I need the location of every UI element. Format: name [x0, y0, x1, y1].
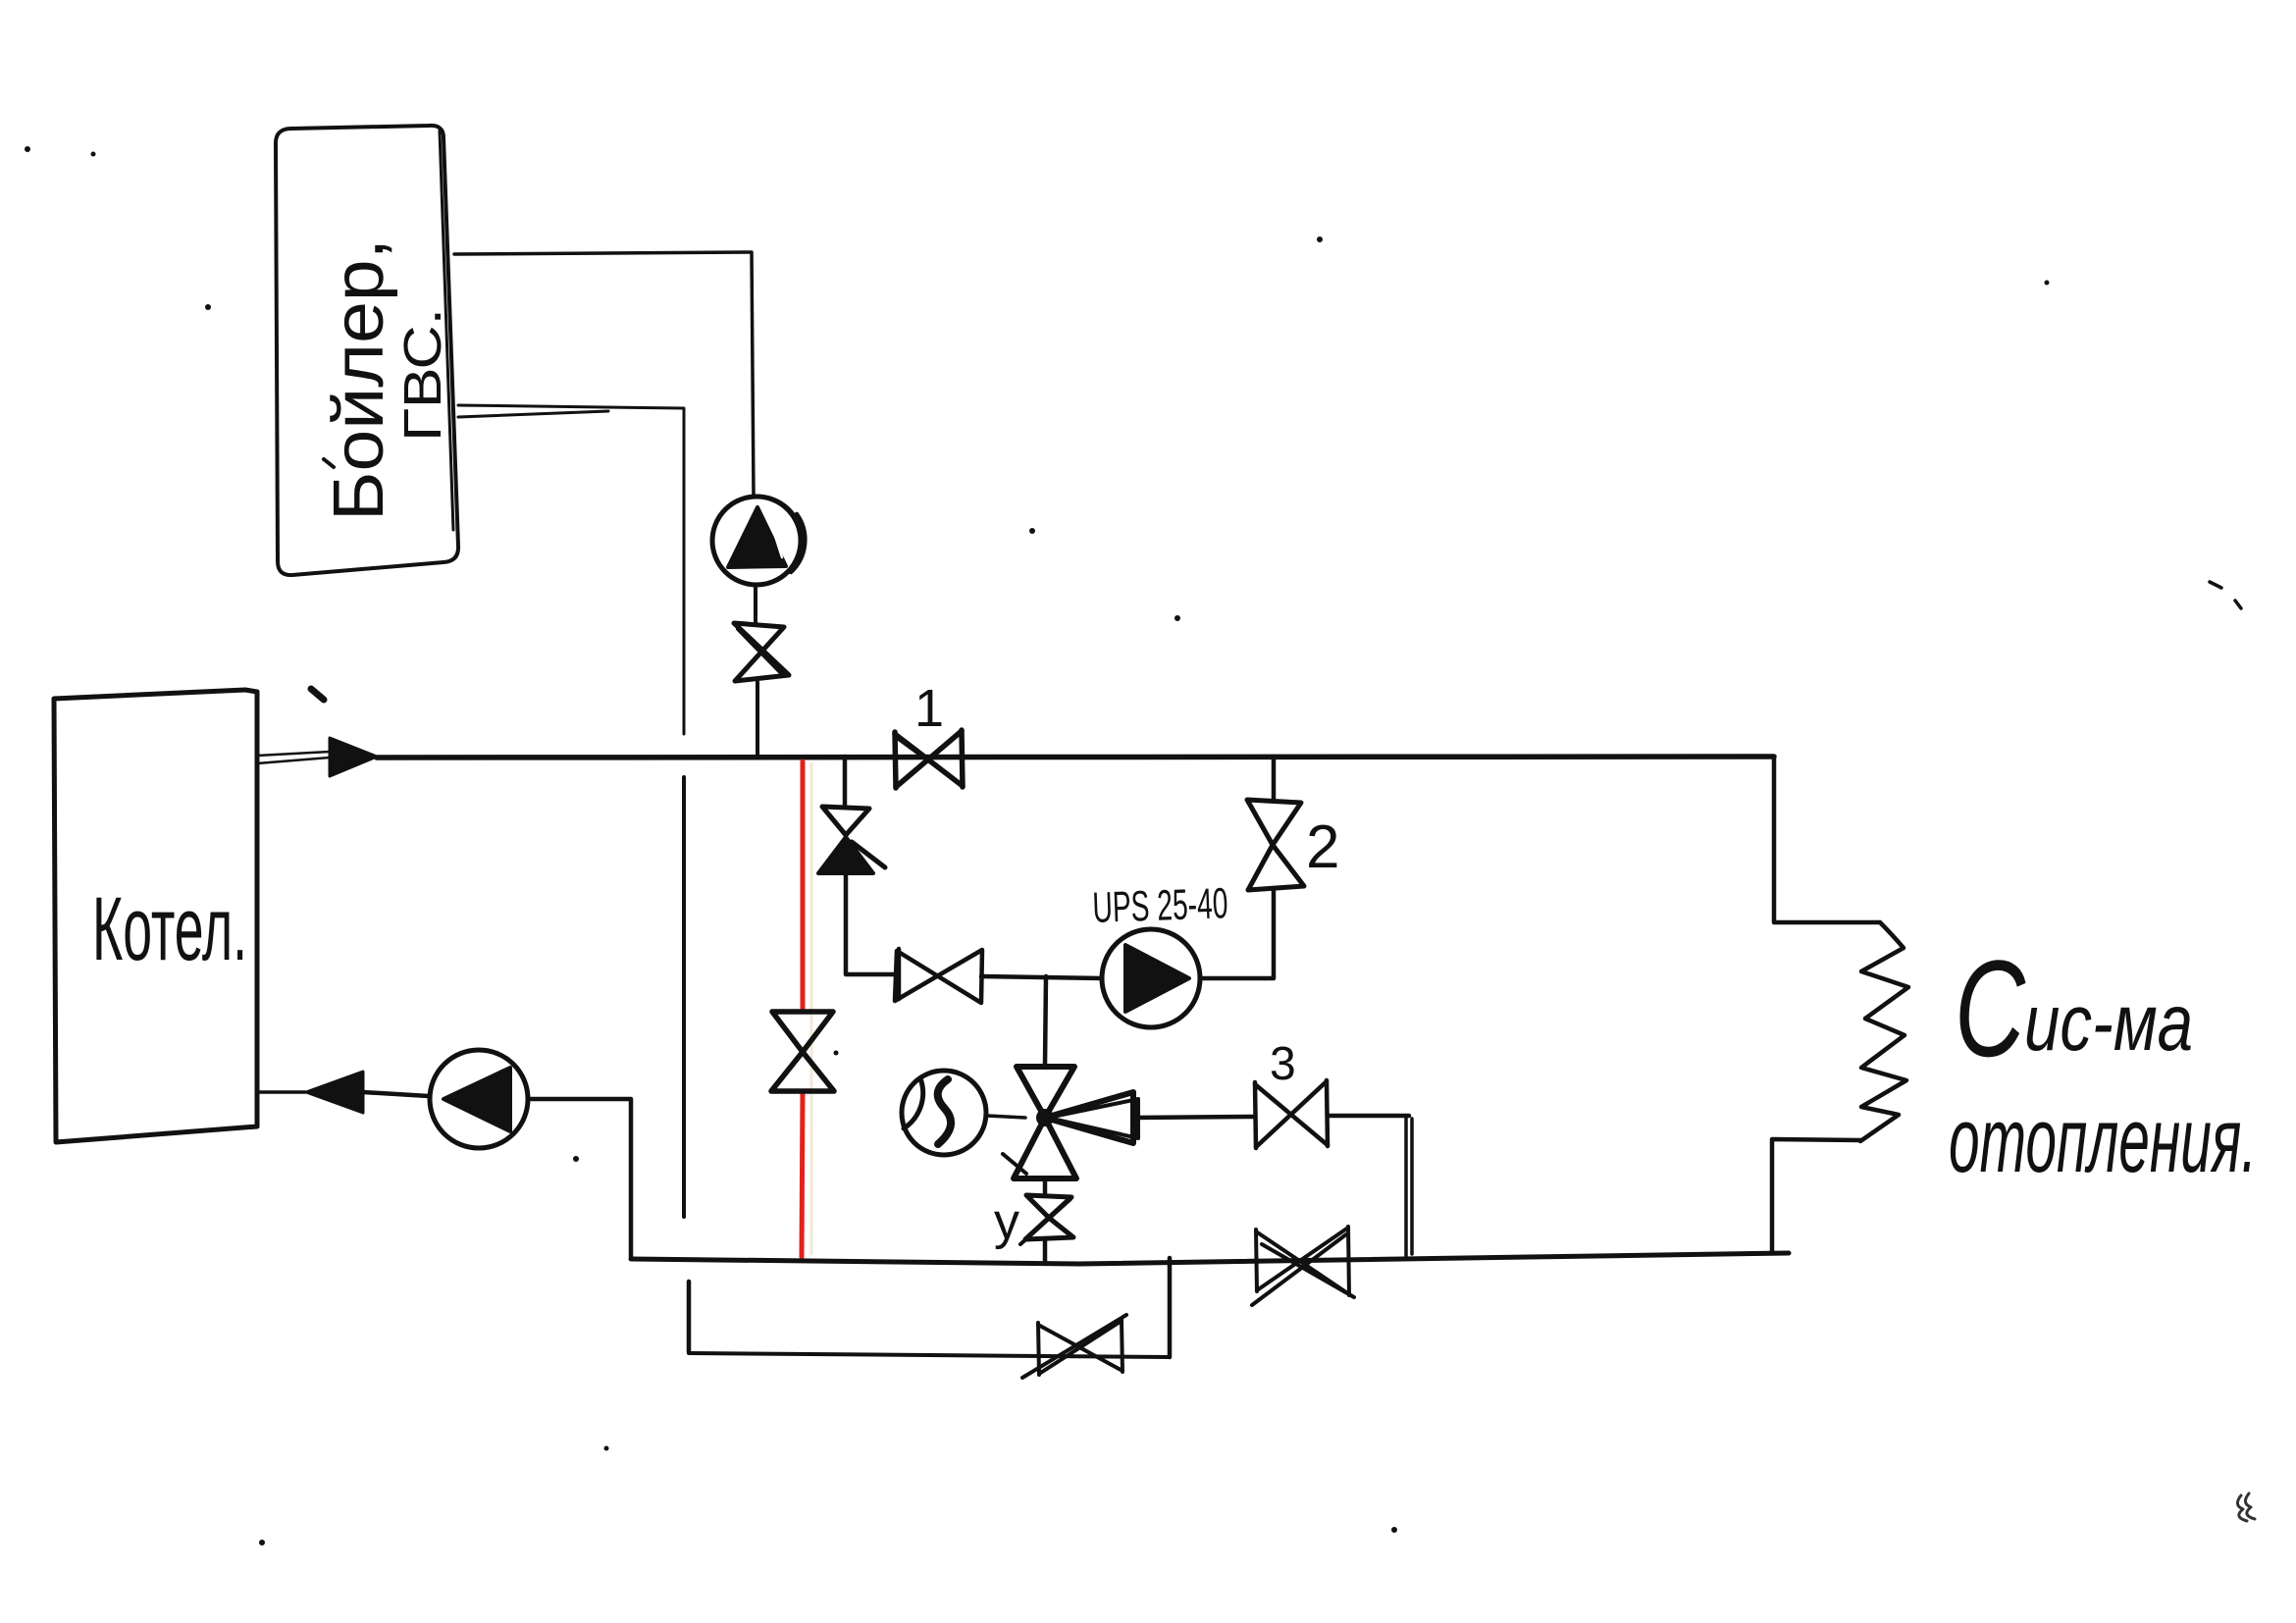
drop to return line (double stroke)	[1406, 1116, 1412, 1256]
svg-text:1: 1	[914, 679, 944, 738]
pump (boiler return, triangle left)	[430, 1050, 528, 1148]
thermometer (circle with squiggle)	[902, 1071, 986, 1155]
wire pump to valve	[754, 586, 757, 624]
wire: DHW return vertical below supply main (crossing gap)	[682, 777, 686, 1217]
boiler DHW tank box (Бойлер, ГВС)	[276, 126, 458, 575]
radiator zigzag (heating system)	[1860, 922, 1908, 1141]
supply main line	[377, 757, 1774, 758]
scan stripe artifact	[810, 763, 813, 1254]
svg-text:С: С	[1955, 931, 2026, 1085]
valve (DHW line, hourglass)	[734, 623, 789, 681]
arrow (supply direction)	[330, 738, 377, 776]
boiler return stub	[257, 1090, 305, 1094]
wire: DHW supply from tank top to down pipe	[454, 252, 754, 496]
lower bypass: from DHW return to return line	[687, 1282, 692, 1352]
branch from pump line down to mixing valve	[1045, 976, 1046, 1066]
svg-text:ис-ма: ис-ма	[2024, 978, 2193, 1068]
valve 1 on supply main	[895, 730, 963, 788]
svg-text:2: 2	[1306, 813, 1339, 881]
crossed valve on lower bypass	[1022, 1315, 1126, 1378]
wire to UPS pump	[981, 976, 1102, 978]
pen tick	[311, 689, 324, 700]
valve on return line (sketchy double bowtie)	[1252, 1227, 1354, 1305]
label Бойлер, ГВС (rotated)	[320, 238, 452, 521]
label Сис-ма	[1949, 931, 2257, 1191]
boiler supply stub	[257, 752, 330, 763]
wire valve3 to drop	[1328, 1114, 1409, 1119]
svg-text:ГВС.: ГВС.	[393, 308, 452, 442]
radiator return to line	[1772, 1139, 1860, 1252]
wire arrow to pump	[363, 1092, 429, 1096]
valve on pump line (bowtie with bars)	[895, 949, 982, 1003]
wire mixing valve to valve3 line	[1133, 1117, 1253, 1118]
svg-text:UPS 25-40: UPS 25-40	[1092, 879, 1229, 932]
valve 2 (hourglass)	[1247, 800, 1304, 890]
red line	[802, 761, 803, 1257]
radiator loop: supply down, across, zigzag	[1774, 757, 1880, 922]
return main line	[631, 1253, 1789, 1264]
wire down and to pump line	[846, 873, 897, 974]
svg-text:у: у	[994, 1193, 1019, 1250]
valve 4 below mixing valve	[1043, 1178, 1048, 1195]
valve (hollow top)	[822, 807, 869, 835]
svg-text:отопления.: отопления.	[1949, 1088, 2257, 1191]
valve on red line (hourglass)	[771, 1012, 834, 1091]
wire valve to supply main	[756, 682, 759, 755]
check valve (filled)	[818, 837, 873, 873]
svg-text:Котел.: Котел.	[92, 879, 247, 979]
wire valve2 to supply main	[1272, 757, 1277, 800]
three-way mixing valve	[1003, 1067, 1138, 1178]
pump UPS 25-40 (triangle right)	[1102, 929, 1200, 1027]
bypass branch down from supply main	[843, 757, 848, 807]
wire pump to corner and down	[528, 1099, 631, 1257]
svg-text:3: 3	[1270, 1038, 1296, 1090]
wire: DHW return from tank to vertical	[458, 405, 684, 734]
svg-text:Бойлер,: Бойлер,	[320, 238, 398, 521]
arrow (return, filled left)	[306, 1072, 363, 1113]
boiler (Котел) box	[54, 690, 257, 1142]
wire pump to valve2 riser	[1200, 889, 1274, 978]
dash link thermometer to mixing valve	[987, 1116, 1025, 1118]
pump P1 (DHW circulation, triangle up)	[712, 497, 805, 585]
valve 3	[1255, 1080, 1328, 1148]
wire valve4 to return line	[1043, 1239, 1048, 1261]
